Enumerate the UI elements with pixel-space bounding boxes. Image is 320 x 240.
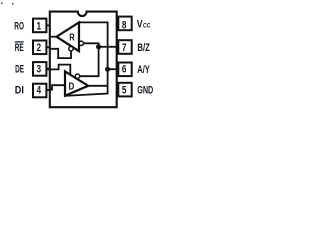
svg-text:DI: DI — [15, 85, 24, 97]
pin 6 box — [118, 63, 131, 77]
wire receiver A input: top corner right then down to A/Y junction — [79, 22, 108, 69]
driver Z output bubble on top edge — [75, 74, 79, 78]
receiver B input bubble — [79, 41, 83, 45]
label RE with overline — [15, 42, 24, 54]
wire DI to driver input — [50, 85, 65, 90]
svg-text:6: 6 — [122, 64, 127, 76]
pin 7 stub wire (B/Z net) — [111, 46, 118, 48]
svg-text:B/Z: B/Z — [137, 42, 150, 54]
pin 6 stub wire (A/Y net) — [108, 68, 119, 70]
svg-text:RE: RE — [15, 42, 24, 54]
stray dot top-left 2 — [12, 3, 14, 5]
pin 3 stub wire — [46, 68, 49, 70]
svg-text:A/Y: A/Y — [137, 64, 150, 76]
pin 4 box — [33, 84, 46, 98]
pin 8 stub wire — [117, 20, 119, 22]
pin 3 box — [33, 62, 46, 76]
wire driver Y output from apex to A/Y vertical — [88, 85, 107, 87]
pin 4 stub wire — [46, 89, 49, 91]
svg-text:D: D — [69, 80, 75, 92]
pin 2 box — [33, 41, 46, 55]
pin 1 stub wire — [46, 24, 49, 26]
wire RO to receiver output — [50, 36, 57, 38]
wire receiver B input to B/Z vertical — [84, 43, 99, 47]
pin 5 stub wire — [117, 89, 119, 91]
svg-text:7: 7 — [122, 42, 127, 54]
svg-text:DE: DE — [15, 63, 24, 75]
pin 5 box — [118, 83, 131, 97]
svg-text:8: 8 — [122, 20, 127, 32]
svg-text:4: 4 — [37, 85, 42, 97]
stray dot top-left 1 — [1, 3, 3, 5]
pin 7 box — [118, 40, 131, 54]
node junction dot on B/Z net — [96, 44, 101, 49]
pin 2 stub wire — [46, 46, 49, 48]
receiver enable bubble (RE) — [69, 47, 73, 51]
svg-text:R: R — [69, 31, 75, 43]
svg-text:CC: CC — [143, 23, 151, 30]
transistor driver D triangle — [65, 71, 88, 95]
pin 1 box — [33, 19, 46, 33]
op-amp receiver R triangle — [57, 22, 80, 51]
node junction dot on A/Y net — [105, 67, 110, 72]
wire B/Z junction to pin 7 — [99, 46, 112, 48]
wire Z vertical down to driver Z output — [80, 47, 99, 76]
IC body U1 outline with notch — [50, 12, 117, 108]
wire DE to driver enable — [46, 65, 70, 75]
wire A/Y vertical lower segment and return to driver bottom edge — [65, 69, 108, 96]
svg-text:3: 3 — [37, 63, 42, 75]
svg-text:GND: GND — [137, 85, 153, 97]
svg-text:2: 2 — [37, 42, 42, 54]
svg-text:5: 5 — [122, 85, 127, 97]
svg-text:1: 1 — [37, 21, 42, 33]
label VCC — [137, 19, 151, 31]
svg-text:RO: RO — [14, 21, 24, 33]
pin 8 box — [118, 17, 131, 32]
wire RE to receiver enable bubble — [49, 49, 71, 58]
